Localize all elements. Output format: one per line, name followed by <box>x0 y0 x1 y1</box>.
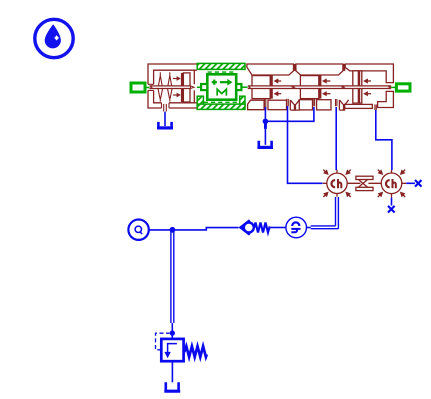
wire Q to check valve <box>149 228 239 230</box>
junction dot J3 <box>170 330 175 335</box>
link stub bottom 2 <box>343 104 345 111</box>
check valve V1 spring <box>254 223 270 233</box>
housing section A wall gap ticks <box>148 84 169 108</box>
force arrow (left) lower unit 1 <box>278 93 281 95</box>
electric motor M box <box>207 74 236 99</box>
piston bar unit 1 <box>270 75 273 98</box>
mechanical link bowtie <box>356 176 373 179</box>
label M <box>217 89 226 95</box>
arrow in M <box>220 81 228 83</box>
relief valve RV1 spring <box>184 346 207 357</box>
wire CH2 bottom terminator <box>391 198 393 206</box>
check valve V1 ball <box>244 223 254 233</box>
shaft connector left <box>131 83 145 92</box>
fluid power icon <box>35 19 73 57</box>
force arrow (left) upper unit 3 <box>367 80 371 82</box>
force arrow (left) lower unit 3 <box>367 93 371 95</box>
dashed link top of motor <box>208 71 234 73</box>
gauge CH1 <box>323 170 351 197</box>
flow source Q <box>128 220 148 240</box>
drain stub wire2 <box>287 99 289 107</box>
feet bar f5 <box>345 104 373 108</box>
measuring hose CH1 to gauge P (double line) <box>311 197 339 229</box>
gauge P (rotated Ch) <box>286 217 307 238</box>
force arrow (left) upper unit 1 <box>278 80 281 82</box>
link stub top 2 <box>343 64 346 71</box>
top plate 3 and end cap upper <box>345 64 393 83</box>
piston A solid bar <box>181 73 184 102</box>
control spring S2 <box>167 72 172 101</box>
plus sign in M <box>212 80 217 85</box>
tank T1 <box>158 122 171 127</box>
green wire motor left port <box>197 86 201 88</box>
piston A head box <box>183 73 190 102</box>
wire to relief valve <box>171 323 173 339</box>
green wire left connector <box>145 87 150 89</box>
pump unit P1 : housing section A outer contour <box>148 64 197 108</box>
main rod section A <box>150 86 195 89</box>
hydraulic hose double line down <box>171 230 174 323</box>
wire pump to gauge CH1 top <box>335 107 337 170</box>
housing section A right wall <box>193 70 195 103</box>
motor mount hatch bottom-left block <box>197 96 203 106</box>
force arrow (right) lower in section A <box>173 94 177 96</box>
motor mount hatch bottom-right block <box>240 96 245 106</box>
motor mount hatch bottom bar <box>197 104 245 109</box>
check valve V1 seat <box>241 220 250 234</box>
terminator X bottom <box>388 206 395 213</box>
top plate 2 <box>296 64 343 75</box>
wire tank2 vertical <box>264 107 266 145</box>
force arrow (left) lower unit 2 <box>326 93 330 95</box>
piston plate unit 3 <box>353 71 362 103</box>
tank T3 <box>166 382 179 390</box>
drain stub wire4 <box>336 99 337 106</box>
link stub top 1 <box>293 64 296 71</box>
wire CH2 right terminator <box>406 182 415 184</box>
gauge CH2 <box>381 170 406 198</box>
piston bar unit 2 <box>319 75 322 98</box>
feet box f2 <box>268 100 287 110</box>
terminator X right <box>415 180 422 187</box>
motor port left <box>201 84 207 90</box>
force arrow (right) upper in section A <box>173 78 177 80</box>
wire check valve to gauge P <box>271 227 286 229</box>
force arrow (left) upper unit 2 <box>326 80 330 82</box>
motor port right <box>236 84 241 90</box>
drain stub under section A <box>164 104 167 112</box>
gauge CH2 arrows <box>378 169 406 197</box>
green wire right connector <box>391 86 396 88</box>
feet box f3 <box>299 100 312 110</box>
wire pump to gauge CH1 left <box>288 106 323 183</box>
wire J1 to pump port <box>265 107 314 121</box>
main rod pump units <box>248 86 391 89</box>
housing section A inner contour <box>154 70 197 103</box>
junction dot J2 <box>170 227 176 233</box>
relief valve RV1 body <box>161 339 183 361</box>
tank T2 <box>259 141 272 147</box>
wire pump to gauge CH2 top <box>376 110 392 170</box>
control spring S1 <box>158 72 163 101</box>
shaft connector right <box>396 84 410 91</box>
relief valve RV1 internal arrow <box>168 344 177 353</box>
drain stub wire3 <box>313 99 314 106</box>
junction dot J1 <box>263 119 269 125</box>
top plate 1 <box>247 64 294 75</box>
cylinder box unit 1 <box>252 76 270 99</box>
cylinder box unit 2 <box>300 76 318 99</box>
motor mount hatch top <box>197 63 245 69</box>
wire tank1 <box>164 112 166 126</box>
green wire motor right port <box>241 86 247 88</box>
dashed link bottom of motor <box>204 101 240 103</box>
drain stub at tank2 <box>265 99 266 110</box>
feet box f1 <box>248 100 265 110</box>
link stub bottom 1 <box>294 104 296 111</box>
wire RV1 to tank <box>171 361 173 382</box>
drain stub wire5 <box>375 105 376 111</box>
feet box f4 <box>317 100 331 110</box>
end cap lower <box>378 91 394 107</box>
relief valve RV1 pilot dashed <box>156 333 170 350</box>
gauge CH1 arrows <box>323 169 351 197</box>
